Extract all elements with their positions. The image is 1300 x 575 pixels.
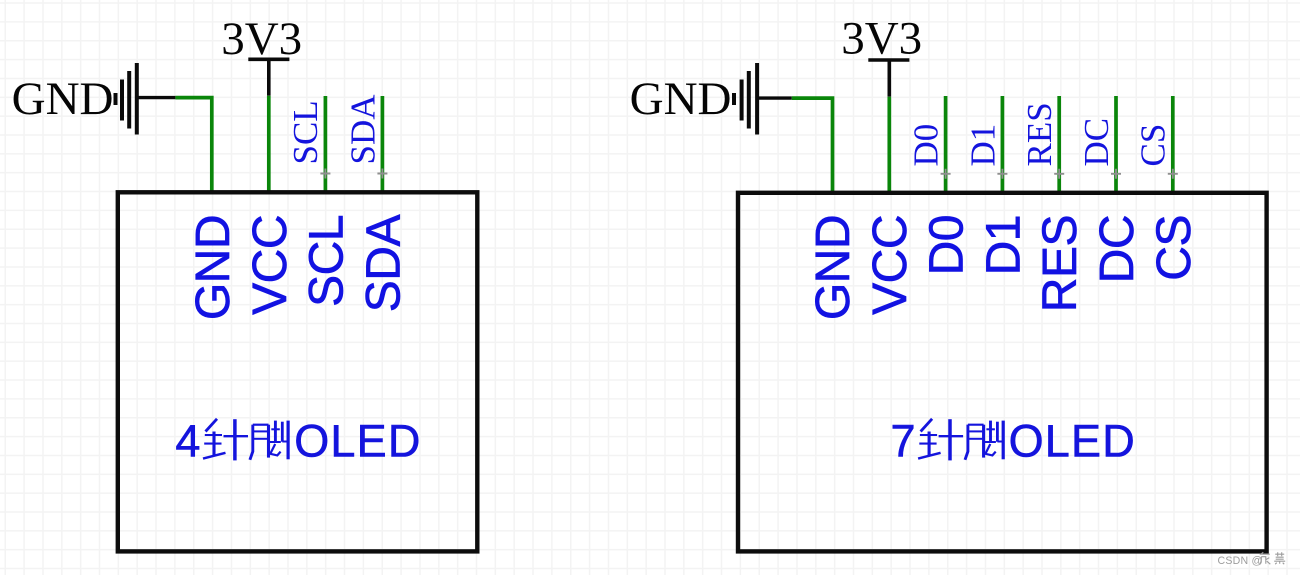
component U2: 7-pin OLED box bbox=[738, 193, 1267, 552]
wire CS bbox=[1171, 96, 1175, 194]
wire SCL bbox=[324, 96, 328, 194]
svg-text:D1: D1 bbox=[977, 215, 1030, 275]
svg-text:RES: RES bbox=[1020, 102, 1059, 166]
wire D1 bbox=[1001, 96, 1005, 194]
wire GND to U2 pin1 bbox=[792, 98, 833, 194]
glyph 脚 bbox=[250, 421, 288, 460]
svg-text:7: 7 bbox=[891, 416, 916, 467]
svg-text:SDA: SDA bbox=[343, 94, 382, 165]
wire RES bbox=[1057, 96, 1061, 194]
svg-text:SCL: SCL bbox=[286, 100, 325, 164]
component label: 7针脚OLED bbox=[891, 416, 1136, 467]
component U1: 4-pin OLED box bbox=[118, 192, 478, 551]
wire DC bbox=[1114, 96, 1118, 194]
svg-text:3V3: 3V3 bbox=[221, 13, 302, 65]
power symbol 3V3 (left) bbox=[248, 59, 289, 95]
pin endpoint cross SCL bbox=[320, 169, 330, 179]
wire D0 bbox=[944, 96, 948, 194]
svg-text:CSDN @: CSDN @ bbox=[1218, 555, 1263, 567]
component label: 4针脚OLED bbox=[175, 416, 421, 467]
svg-text:OLED: OLED bbox=[1009, 416, 1136, 467]
svg-text:GND: GND bbox=[807, 215, 860, 320]
svg-text:CS: CS bbox=[1148, 215, 1201, 281]
wire 3V3 to U1 pin2 VCC bbox=[267, 96, 271, 194]
svg-text:GND: GND bbox=[12, 73, 114, 125]
ground symbol (right) bbox=[734, 63, 792, 135]
wire SDA bbox=[381, 96, 385, 194]
glyph 针 bbox=[203, 419, 248, 461]
svg-text:GND: GND bbox=[187, 215, 240, 320]
svg-text:CS: CS bbox=[1134, 124, 1173, 167]
pin endpoint cross SDA bbox=[377, 169, 387, 179]
power symbol 3V3 (right) bbox=[868, 60, 909, 97]
svg-text:DC: DC bbox=[1077, 118, 1116, 167]
pin endpoint cross DC bbox=[1111, 169, 1121, 179]
svg-text:D0: D0 bbox=[921, 215, 974, 275]
svg-text:RES: RES bbox=[1034, 215, 1087, 312]
pin endpoint cross RES bbox=[1054, 169, 1064, 179]
svg-text:VCC: VCC bbox=[864, 215, 917, 315]
svg-text:GND: GND bbox=[630, 73, 732, 125]
ground symbol (left) bbox=[116, 63, 176, 135]
wire 3V3 to U2 pin2 VCC bbox=[887, 97, 891, 194]
svg-text:OLED: OLED bbox=[294, 416, 421, 467]
watermark CSDN @虎慕 bbox=[1218, 552, 1286, 567]
pin endpoint cross CS bbox=[1168, 169, 1178, 179]
pin endpoint cross D1 bbox=[997, 169, 1007, 179]
svg-text:D0: D0 bbox=[907, 124, 946, 167]
svg-text:SDA: SDA bbox=[357, 215, 410, 313]
glyph 针 (right) bbox=[918, 419, 963, 461]
svg-text:VCC: VCC bbox=[244, 215, 297, 315]
svg-text:3V3: 3V3 bbox=[841, 13, 922, 65]
svg-text:SCL: SCL bbox=[300, 215, 353, 307]
svg-text:DC: DC bbox=[1091, 215, 1144, 283]
svg-text:D1: D1 bbox=[963, 124, 1002, 167]
svg-text:4: 4 bbox=[175, 416, 200, 467]
wire GND to U1 pin1 bbox=[175, 98, 211, 194]
glyph 脚 (right) bbox=[965, 421, 1003, 460]
pin endpoint cross D0 bbox=[941, 169, 951, 179]
